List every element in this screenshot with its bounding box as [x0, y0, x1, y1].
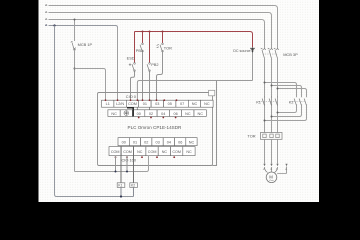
DC source drop right (red): [252, 34, 254, 47]
functional earth terminal symbol: [124, 111, 129, 116]
node bus PB2: [149, 31, 151, 33]
svg-text:ESD: ESD: [127, 56, 135, 61]
input terminal labels upper: [106, 102, 210, 106]
contactor K2 linkage: [292, 101, 306, 103]
node rail com2: [126, 171, 128, 173]
PLC output terminal row upper: [118, 138, 197, 146]
svg-text:TOR: TOR: [164, 46, 172, 51]
node crossover B: [271, 116, 273, 118]
svg-text:NC: NC: [204, 102, 210, 106]
node K1 N: [120, 195, 122, 197]
neutral return left rail: [55, 26, 134, 197]
wire MCB1P drop from L3: [74, 20, 76, 42]
wire TOR to motor V: [271, 139, 273, 163]
node rail com1: [115, 171, 117, 173]
svg-text:COM: COM: [172, 150, 181, 154]
svg-text:CIO 100: CIO 100: [122, 157, 137, 162]
DC source symbol: [250, 47, 255, 52]
svg-text:COM: COM: [148, 150, 157, 154]
svg-text:NC: NC: [189, 141, 195, 145]
relay coil K2: [130, 183, 138, 188]
bus L1 end tick: [45, 4, 47, 5]
arrow terminal U: [263, 164, 265, 167]
motor wave: [269, 180, 273, 181]
svg-text:L2/N: L2/N: [116, 102, 124, 106]
svg-text:COM: COM: [111, 150, 120, 154]
wire MCB1P output: [74, 51, 76, 172]
phase bus L3: [49, 20, 265, 23]
svg-text:01: 01: [133, 141, 137, 145]
circuit breaker MCB 3P pole 1: [261, 48, 266, 58]
crossover wire K2 pole1: [278, 106, 297, 113]
node tap C: [277, 88, 279, 90]
node bus TOR aux: [162, 31, 164, 33]
left black mat: [0, 0, 39, 202]
svg-text:00: 00: [137, 112, 141, 116]
svg-text:K1: K1: [118, 183, 122, 187]
DC 24V control bus (red): [135, 32, 253, 35]
svg-text:NC: NC: [192, 102, 198, 106]
svg-text:MCB 1P: MCB 1P: [78, 42, 93, 47]
node tap B: [271, 85, 273, 87]
output terminal labels lower: [111, 150, 192, 154]
branch tap phase B to K2: [272, 86, 302, 97]
contactor K1 contact pole 1: [262, 97, 264, 106]
right black mat: [319, 0, 360, 202]
svg-text:NC: NC: [111, 112, 117, 116]
svg-text:NC: NC: [185, 112, 191, 116]
pushbutton PB2 contact: [147, 64, 150, 71]
wire output 00 to coil K1: [120, 146, 122, 183]
svg-text:03: 03: [155, 102, 159, 106]
svg-text:07: 07: [180, 102, 184, 106]
svg-text:PLC Omron CP1E-14SDR: PLC Omron CP1E-14SDR: [128, 125, 183, 130]
PLC input terminal row upper: [102, 100, 214, 107]
motor PE stub wire: [277, 167, 286, 174]
DC return wire to PLC COM: [137, 81, 252, 111]
crossover wire K2 pole3: [265, 106, 307, 121]
pushbutton PB2 drop (red): [149, 32, 151, 63]
svg-text:PB2: PB2: [151, 62, 158, 67]
wire TOR to motor U: [264, 139, 266, 163]
svg-text:K2: K2: [289, 100, 294, 105]
motor PE stub: [285, 164, 287, 167]
wire L2 drop to MCB 3P: [271, 16, 273, 49]
node crossover C: [264, 120, 266, 122]
svg-text:COM: COM: [128, 102, 137, 106]
motor lead U: [265, 167, 268, 173]
svg-text:K1: K1: [256, 100, 261, 105]
node MCB output branch: [74, 68, 76, 70]
svg-text:06: 06: [173, 112, 177, 116]
pushbutton PB1 drop (red): [142, 32, 144, 44]
branch tap phase A to K2: [265, 83, 297, 97]
wire PB2 to input 02: [149, 72, 151, 114]
arrow terminal V: [270, 164, 272, 167]
pushbutton ESD contact: [129, 63, 135, 71]
svg-text:M: M: [269, 175, 273, 180]
input wire landing nodes: [105, 99, 178, 118]
svg-text:NC: NC: [162, 150, 168, 154]
contactor K2 contact pole 3: [304, 97, 306, 106]
svg-text:02: 02: [149, 112, 153, 116]
L feed rail to output COM: [75, 156, 149, 172]
crossover wire K2 pole2: [272, 106, 302, 117]
wire PB1 to input 01: [142, 52, 144, 100]
wire TOR to motor W: [277, 139, 279, 163]
relay coil K1: [117, 183, 125, 188]
arrow terminal W: [276, 164, 278, 167]
MCB 3P linkage: [263, 53, 277, 55]
wire L1 drop to MCB 3P: [277, 9, 279, 49]
motor lead V: [271, 167, 273, 172]
svg-text:MCB 3P: MCB 3P: [283, 52, 298, 57]
PLC body CP1E: [98, 93, 213, 166]
node bus PB1: [142, 31, 144, 33]
svg-text:03: 03: [155, 141, 159, 145]
wire TOR aux to input 03: [157, 52, 163, 100]
svg-text:DC source: DC source: [233, 49, 250, 53]
output terminal labels upper: [122, 141, 195, 145]
drawing sheet background: [39, 0, 320, 202]
COM to earth jumper (thick): [127, 108, 133, 117]
wire phase C below MCB to TOR: [277, 59, 279, 133]
contactor K1 linkage: [259, 101, 277, 103]
phase bus L2: [49, 13, 272, 16]
wire output 01 to coil K2: [133, 146, 135, 183]
neutral bus N: [49, 26, 118, 28]
circuit breaker MCB 1P: [71, 42, 76, 51]
thermal overload relay TOR body: [261, 133, 283, 140]
circuit breaker MCB 3P pole 2: [268, 48, 273, 58]
wire coil K2 to N: [133, 187, 135, 196]
svg-text:04: 04: [167, 141, 171, 145]
contactor K1 contact pole 2: [269, 97, 271, 106]
svg-text:K2: K2: [131, 183, 135, 187]
DC source lower lead (red): [252, 53, 254, 81]
svg-text:COM: COM: [123, 150, 132, 154]
contactor K1 contact pole 3: [275, 97, 277, 106]
wire N drop to PLC L2/N: [117, 28, 119, 101]
svg-text:00: 00: [122, 141, 126, 145]
COM rail drop 1: [115, 156, 117, 172]
input terminal labels lower: [111, 112, 203, 116]
circuit breaker MCB 3P pole 3: [274, 48, 279, 58]
PLC output terminal row lower: [109, 147, 195, 156]
TOR heater elements: [263, 134, 279, 138]
node L3 tap: [74, 19, 76, 21]
wire coil K1 to N: [120, 187, 122, 196]
svg-text:PB1: PB1: [136, 48, 143, 53]
node tap A: [264, 82, 266, 84]
PLC input terminal row lower: [108, 110, 206, 117]
wire ESD to input 00: [131, 72, 135, 101]
svg-text:02: 02: [144, 141, 148, 145]
svg-text:01: 01: [143, 102, 147, 106]
svg-text:NC: NC: [137, 150, 143, 154]
wire phase A below MCB to TOR: [264, 59, 266, 133]
pushbutton PB1 contact: [140, 45, 143, 52]
output terminal nodes: [115, 156, 176, 158]
node crossover A: [277, 112, 279, 114]
svg-text:L1: L1: [106, 102, 110, 106]
COM rail drop 2: [126, 156, 128, 172]
wire branch to PLC L1: [75, 69, 106, 101]
svg-text:04: 04: [161, 112, 165, 116]
bus N end tick: [45, 24, 47, 25]
svg-text:NC: NC: [186, 150, 192, 154]
pushbutton ESD drop (red): [134, 32, 136, 63]
contactor K2 contact pole 2: [299, 97, 301, 106]
svg-text:NC: NC: [197, 112, 203, 116]
node N tap: [53, 24, 55, 26]
TOR aux drop (red): [162, 32, 164, 44]
TOR aux contact: [157, 44, 163, 52]
DC 0V side wire: [213, 81, 217, 166]
svg-text:CIO 0: CIO 0: [126, 94, 137, 99]
wire phase B below MCB to TOR: [271, 59, 273, 133]
bus L3 end tick: [45, 18, 47, 19]
branch tap phase C to K2: [278, 89, 307, 97]
wire L3 drop to MCB 3P: [264, 23, 266, 49]
bus L2 end tick: [45, 11, 47, 12]
motor M1 3~: [266, 172, 277, 183]
motor lead W: [275, 167, 278, 173]
contactor K2 contact pole 1: [294, 97, 296, 106]
PLC top-right notch: [209, 90, 215, 96]
svg-text:05: 05: [168, 102, 172, 106]
svg-text:TOR: TOR: [247, 134, 255, 139]
phase bus L1: [49, 6, 278, 9]
svg-text:06: 06: [178, 141, 182, 145]
